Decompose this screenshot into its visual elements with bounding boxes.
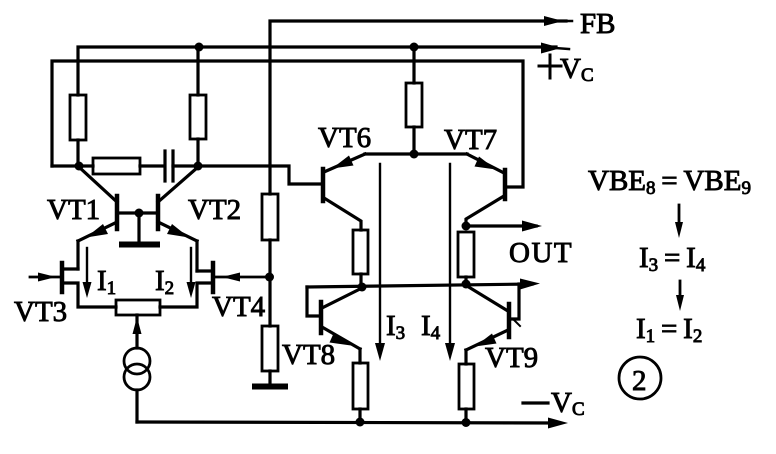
wire OUT upper arrow [462,221,543,232]
svg-text:VT3: VT3 [14,296,67,328]
svg-text:VC: VC [560,53,594,86]
current arrow I1 [83,248,92,298]
transistor VT4 (JFET) [160,263,269,307]
resistor R6 [262,326,278,371]
svg-text:I3 = I4: I3 = I4 [639,242,706,276]
capacitor C1 [165,151,198,181]
resistor R5 (on FB vertical) [262,194,278,240]
ground under VT1/VT2 bases [122,209,157,245]
current arrow I2 [187,248,196,298]
svg-text:FB: FB [580,8,615,40]
resistor R9 (VT7 collector / OUT) [458,232,474,285]
current source (tail) [124,315,150,422]
node A (VT1 collector node) [52,162,93,171]
svg-text:I1 = I2: I1 = I2 [636,313,702,347]
transistor VT8 [307,287,360,363]
svg-text:VT6: VT6 [318,122,371,154]
node junction rail at R11 [462,418,471,427]
transistor VT7 [466,154,505,226]
arrow down 2 [676,281,684,311]
node junction on +Vc at R7 [410,43,419,52]
current arrow I3 [375,164,385,361]
node C (VT6/VT7 emitters) [365,150,467,159]
wire left rail to VT7 base (second top rail) [52,61,523,187]
svg-text:2: 2 [632,365,647,397]
svg-text:I4: I4 [421,310,441,344]
net label +Vc [539,55,561,78]
resistor R8 (VT6 collector) [353,230,368,287]
resistor R1 [70,95,86,166]
svg-text:VC: VC [551,387,585,420]
net label -Vc [523,401,548,404]
svg-text:VT2: VT2 [188,194,241,226]
wire FB line [270,16,572,194]
transistor VT9 [466,284,519,364]
wire R5 to R6 [268,240,271,326]
node junction rail at R10 [356,418,365,427]
wire VT1 emitter to VT3 drain [76,241,79,269]
arrow down 1 [675,205,683,238]
svg-text:VT4: VT4 [212,291,266,323]
transistor VT1 [78,167,139,241]
transistor VT6 [323,154,365,230]
svg-text:VT7: VT7 [444,124,497,156]
stray tick near VT9 [513,319,520,326]
figure number circled 2 [619,357,661,399]
svg-text:VT8: VT8 [282,339,335,371]
resistor R11 (VT9 emitter) [459,364,474,422]
node junction on +Vc at R2 [195,43,204,52]
svg-text:I2: I2 [155,265,174,299]
svg-text:OUT: OUT [509,237,573,269]
ground under R6 [255,371,285,387]
transistor VT2 [139,167,198,241]
current arrow I4 [445,164,455,361]
svg-text:I1: I1 [97,265,116,299]
resistor R2 [190,47,206,166]
wire VT2 emitter to VT4 drain [195,241,198,271]
node B (VT2 collector node) and wire to VT6 base [194,162,323,185]
svg-text:VT1: VT1 [47,194,100,226]
resistor R4 (horizontal, emitters) [116,300,160,315]
wire VT8/VT9 base line with right arrow [307,279,540,292]
resistor R7 (VT6/VT7 emitter load) [406,47,422,154]
resistor R3 (horizontal, compensation) [93,158,164,174]
node junction VT4 gate [265,273,274,282]
transistor VT3 (JFET) [30,263,116,307]
wire bottom rail to -Vc [137,418,568,429]
svg-text:I3: I3 [386,310,405,344]
svg-text:VT9: VT9 [485,342,538,374]
wire +Vc rail [78,43,569,96]
svg-text:VBE8 = VBE9: VBE8 = VBE9 [588,165,751,199]
resistor R10 (VT8 emitter) [353,363,368,422]
